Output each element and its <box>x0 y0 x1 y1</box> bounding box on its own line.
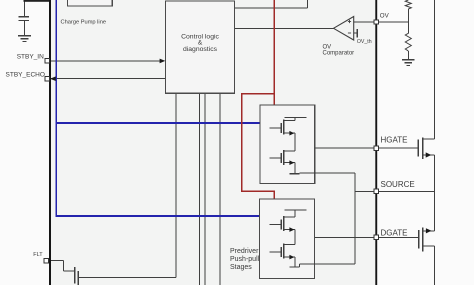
svg-text:FLT: FLT <box>33 252 43 258</box>
svg-text:OV_th: OV_th <box>357 39 372 45</box>
svg-text:OV: OV <box>380 12 390 19</box>
svg-text:STBY_IN: STBY_IN <box>17 54 44 61</box>
svg-text:Stages: Stages <box>230 264 252 271</box>
svg-text:Charge Pump line: Charge Pump line <box>61 19 107 25</box>
svg-text:HGATE: HGATE <box>381 135 408 144</box>
svg-text:diagnostics: diagnostics <box>183 46 218 53</box>
svg-text:Comparator: Comparator <box>323 51 355 57</box>
svg-text:SOURCE: SOURCE <box>381 180 415 189</box>
svg-text:STBY_ECHO: STBY_ECHO <box>6 71 45 78</box>
svg-text:Predriver: Predriver <box>230 248 259 255</box>
svg-text:Push-pull: Push-pull <box>230 256 260 263</box>
svg-text:DGATE: DGATE <box>381 228 408 237</box>
svg-text:OV: OV <box>323 44 332 50</box>
